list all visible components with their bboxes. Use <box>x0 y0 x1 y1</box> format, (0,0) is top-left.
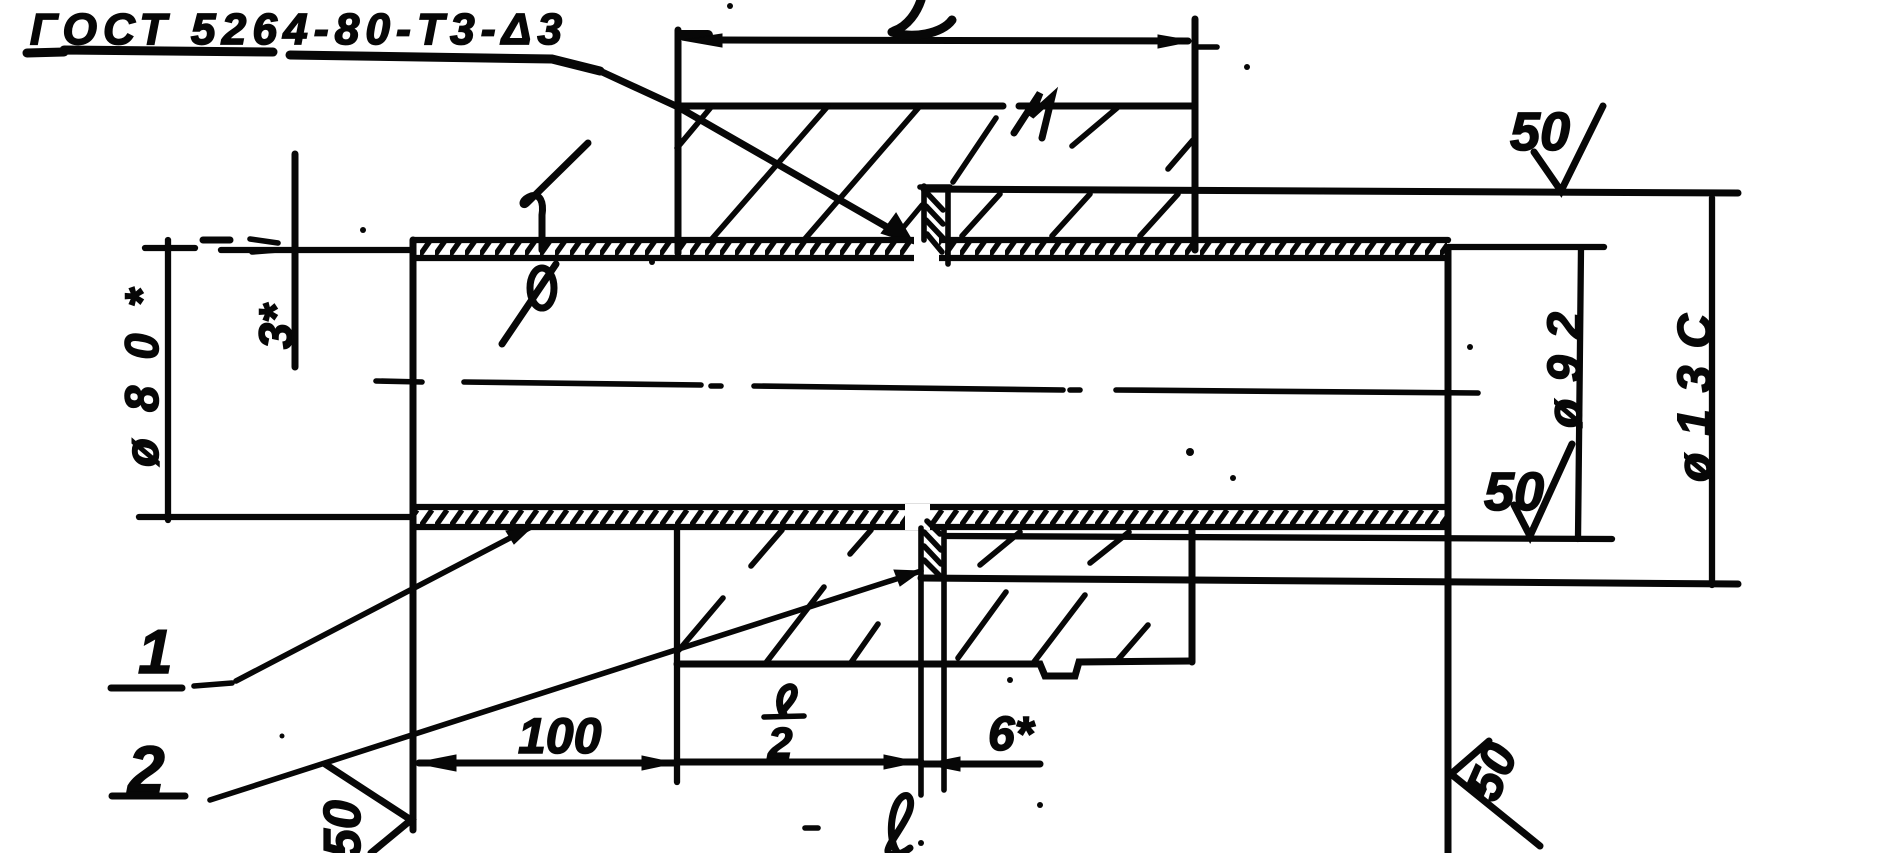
dimension 6 star line <box>921 761 1040 768</box>
roughness mark 50 top right check <box>1534 106 1603 191</box>
dimension L overshoot stub <box>1197 44 1217 50</box>
coupling lower left hatch line 3 <box>850 624 878 664</box>
leader of item 1 arrowhead <box>506 526 533 544</box>
branch pipe upper wall hatch 1 <box>962 194 1000 236</box>
dimension 100 right arrowhead <box>642 756 675 770</box>
svg-text:1: 1 <box>138 618 172 687</box>
coupling upper left hatch line 2 <box>711 106 828 240</box>
wall thickness 3 extension dash <box>203 237 230 244</box>
diameter 130 dimension line <box>1709 198 1715 585</box>
coupling lower section bottom edge <box>677 661 1192 676</box>
item label 2 underline <box>112 793 185 800</box>
fraction bar of L over 2 <box>764 716 804 717</box>
leader of item 2 arrowhead <box>894 570 921 586</box>
main pipe upper wall outer line <box>413 237 1448 243</box>
wall thickness arrows <box>250 239 278 252</box>
main pipe upper wall inner line <box>413 255 1448 261</box>
svg-text:6*: 6* <box>988 708 1036 761</box>
lower weld seam left edge and extension <box>918 528 924 795</box>
leader arrowhead <box>882 214 913 243</box>
coupling upper section top edge <box>677 103 1195 110</box>
upper weld seam right edge <box>945 188 951 264</box>
script letter L label of top dimension <box>892 0 952 35</box>
upper weld seam hatch <box>926 192 943 252</box>
coupling lower left hatch line 1 <box>679 598 723 650</box>
diameter 80 bottom extension line <box>139 514 413 520</box>
dimension L corner stub <box>681 30 708 40</box>
coupling lower left hatch line 4 <box>751 530 782 566</box>
svg-text:2: 2 <box>767 719 793 768</box>
dimension 100 line <box>419 760 676 767</box>
dimension 6 star arrowhead <box>925 757 960 771</box>
dimension L left arrowhead <box>682 34 722 47</box>
leader of item 1 <box>194 527 531 686</box>
coupling lower left hatch line 5 <box>850 530 871 554</box>
diameter 92 top extension line <box>1448 244 1604 250</box>
weld symbol loop on seam <box>530 268 554 308</box>
roughness mark 50 middle right check <box>1514 444 1572 536</box>
coupling upper left hatch line 1 <box>677 106 712 148</box>
main pipe lower wall outer line <box>413 524 1448 530</box>
branch pipe outer surface bottom line <box>921 578 1738 584</box>
center line <box>376 381 1478 393</box>
coupling upper right hatch line 3 <box>1168 140 1193 169</box>
coupling lower right hatch line 1 <box>958 592 1006 658</box>
coupling lower section left edge and extension <box>674 528 680 782</box>
item label 1 underline <box>111 685 182 692</box>
coupling lower right hatch line 2 <box>1034 595 1085 662</box>
coupling lower right hatch stub 2 <box>1090 532 1129 563</box>
svg-text:ø80*: ø80* <box>115 286 168 467</box>
coupling lower left hatch line 2 <box>765 587 824 664</box>
coupling lower right hatch line 3 <box>1116 625 1148 662</box>
svg-text:3*: 3* <box>249 302 302 349</box>
white gap in upper band at weld <box>914 234 939 264</box>
handwritten squiggle 2 on top edge <box>1014 93 1052 138</box>
small dash near bottom label <box>805 825 818 831</box>
dimension L line <box>720 40 1188 41</box>
leader of item 2 <box>210 571 921 800</box>
branch pipe upper wall hatch 2 <box>1052 194 1090 236</box>
diameter 92 dimension line <box>1578 248 1581 539</box>
main pipe left end face <box>410 240 417 830</box>
script letter l bottom label <box>888 796 911 853</box>
svg-text:100: 100 <box>518 708 602 764</box>
roughness mark 50 bottom right check <box>1451 741 1540 846</box>
dimension 100 left arrowhead <box>415 755 456 771</box>
wall thickness dimension vertical line <box>292 154 299 367</box>
diameter 92 bottom extension line <box>947 536 1612 539</box>
leader from designation to weld <box>600 71 906 238</box>
diameter 80 top extension line <box>145 248 413 250</box>
svg-text:50: 50 <box>1510 102 1570 162</box>
svg-text:50: 50 <box>314 800 372 853</box>
branch pipe upper wall hatch 3 <box>1140 194 1178 236</box>
underline of weld designation <box>27 50 600 71</box>
main pipe lower wall inner line <box>413 504 1448 510</box>
lower weld seam hatch <box>924 521 941 576</box>
upper weld seam cap <box>920 184 950 190</box>
branch pipe outer surface top line <box>924 189 1738 193</box>
upper weld seam left edge <box>921 186 927 240</box>
dimension L over 2 line <box>677 759 921 766</box>
coupling upper right hatch line 1 <box>953 118 996 182</box>
dimension L right arrowhead <box>1158 35 1193 48</box>
white gap in lower band at weld <box>905 504 930 530</box>
fraction numerator script l <box>780 687 795 714</box>
lower weld seam right edge and extension <box>941 528 947 790</box>
main pipe upper wall hatch band <box>414 241 1447 257</box>
main pipe lower wall hatch band <box>414 508 1447 525</box>
coupling lower right hatch stub 1 <box>980 532 1020 565</box>
main pipe right end face <box>1445 248 1452 853</box>
dimension L extension line right <box>1192 19 1199 250</box>
coupling upper left hatch line 3 <box>804 106 920 240</box>
svg-text:50: 50 <box>1455 735 1529 809</box>
roughness mark 50 bottom left check <box>325 764 411 853</box>
svg-text:50: 50 <box>1484 462 1544 522</box>
weld symbol slash <box>502 264 556 344</box>
diameter 80 dimension line <box>165 240 171 520</box>
coupling upper left hatch line 4 <box>893 205 922 240</box>
weld symbol check above seam <box>523 143 588 250</box>
dimension L extension line left <box>675 30 682 253</box>
svg-text:ø92: ø92 <box>1539 312 1592 428</box>
scan speckles <box>280 3 1474 846</box>
coupling upper right hatch line 2 <box>1072 108 1117 146</box>
dimension L over 2 right arrowhead <box>884 755 917 769</box>
coupling lower section right edge <box>1189 530 1196 662</box>
